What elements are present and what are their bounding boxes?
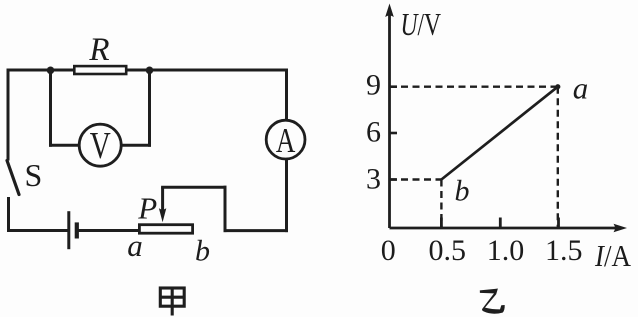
caption 乙 xyxy=(480,289,505,314)
voltmeter V circle xyxy=(79,124,121,166)
rheostat slider arrowhead xyxy=(159,208,166,222)
svg-text:R: R xyxy=(88,32,109,68)
svg-text:1.5: 1.5 xyxy=(545,234,583,267)
wire into voltmeter right xyxy=(122,144,150,147)
dashed line U=9 xyxy=(390,85,558,87)
graph x-axis arrowhead xyxy=(614,224,628,233)
svg-text:b: b xyxy=(195,235,210,268)
wire ammeter drop from top xyxy=(285,70,288,121)
svg-text:I/A: I/A xyxy=(594,238,631,273)
svg-text:3: 3 xyxy=(366,163,381,196)
graph y-axis arrowhead xyxy=(385,4,394,18)
svg-text:1.0: 1.0 xyxy=(487,234,525,267)
node junction dot right xyxy=(146,67,154,75)
dashed line I=1.5 xyxy=(557,87,559,228)
x tick 1.5 xyxy=(557,218,560,229)
rheostat slider stem xyxy=(161,187,164,211)
wire ammeter down to bottom xyxy=(285,159,288,231)
dashed line U=3 xyxy=(390,178,442,180)
wire V-branch left vertical xyxy=(49,70,52,145)
wire battery bottom left xyxy=(9,229,68,232)
battery short plate xyxy=(75,222,79,238)
svg-text:a: a xyxy=(573,71,589,106)
wire into voltmeter left xyxy=(51,144,80,147)
node junction dot left xyxy=(47,67,55,75)
ammeter A circle xyxy=(266,120,305,159)
rheostat box xyxy=(139,225,192,234)
wire battery to rheostat xyxy=(79,229,139,232)
svg-text:P: P xyxy=(137,191,157,226)
wire bottom right horizontal xyxy=(225,229,287,232)
wire top horizontal xyxy=(8,69,287,72)
wire slider top horizontal xyxy=(163,186,225,189)
x tick 1.0 xyxy=(499,218,502,229)
wire riser at x225 xyxy=(224,187,227,230)
y tick 6 xyxy=(390,132,398,135)
svg-text:U/V: U/V xyxy=(401,6,442,42)
svg-text:0: 0 xyxy=(381,234,396,267)
y tick 3 xyxy=(390,178,398,181)
svg-text:9: 9 xyxy=(366,69,381,102)
point a dot xyxy=(555,84,560,89)
graph line b to a xyxy=(441,87,557,180)
wire switch lower vertical xyxy=(7,199,10,231)
svg-text:S: S xyxy=(25,157,43,193)
svg-text:a: a xyxy=(127,228,143,263)
svg-text:0.5: 0.5 xyxy=(429,234,467,267)
battery long plate xyxy=(67,211,70,249)
y tick 9 xyxy=(390,85,398,88)
resistor R box xyxy=(74,66,126,74)
switch S blade xyxy=(7,161,19,195)
wire left vertical upper xyxy=(7,70,10,159)
wire V-branch right vertical xyxy=(148,70,151,145)
x tick 0.5 xyxy=(440,218,443,229)
svg-text:b: b xyxy=(455,174,470,207)
dashed line I=0.5 xyxy=(440,180,442,229)
svg-text:A: A xyxy=(276,122,296,160)
graph y-axis xyxy=(388,12,391,228)
graph x-axis xyxy=(390,227,617,230)
svg-text:V: V xyxy=(90,125,111,167)
svg-text:6: 6 xyxy=(366,116,381,149)
caption 甲 xyxy=(160,288,184,316)
